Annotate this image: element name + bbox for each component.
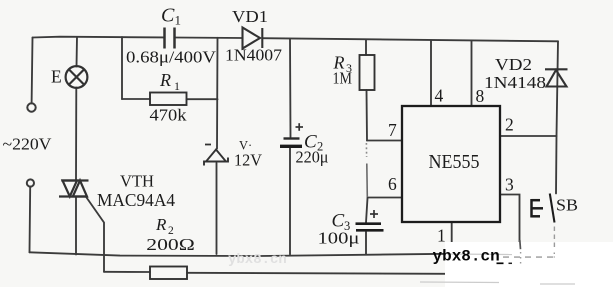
svg-text:6: 6 (388, 174, 397, 194)
svg-text:1: 1 (175, 13, 182, 28)
svg-text:E: E (51, 67, 62, 87)
svg-text:3: 3 (346, 61, 352, 75)
svg-text:NE555: NE555 (429, 152, 480, 173)
svg-text:R: R (155, 215, 167, 234)
svg-text:VTH: VTH (120, 171, 154, 190)
svg-text:1N4007: 1N4007 (225, 46, 283, 65)
svg-text:470k: 470k (150, 106, 188, 125)
svg-text:R: R (333, 53, 345, 73)
svg-text:C: C (161, 5, 175, 27)
svg-text:3: 3 (344, 219, 350, 233)
svg-text:8: 8 (476, 86, 485, 106)
svg-text:C: C (304, 132, 317, 153)
svg-text:ybx8.cn: ybx8.cn (433, 248, 500, 266)
svg-text:1N4148: 1N4148 (484, 73, 546, 92)
svg-text:VD2: VD2 (495, 55, 532, 74)
svg-text:2: 2 (168, 225, 174, 237)
svg-text:200Ω: 200Ω (146, 235, 195, 254)
svg-text:SB: SB (556, 196, 578, 215)
svg-text:3: 3 (505, 175, 514, 195)
svg-text:~220V: ~220V (3, 135, 53, 154)
svg-text:C: C (332, 211, 345, 232)
svg-text:7: 7 (388, 120, 397, 140)
svg-text:1: 1 (174, 79, 180, 93)
svg-text:VD1: VD1 (232, 7, 268, 26)
svg-text:0.68μ/400V: 0.68μ/400V (126, 48, 217, 67)
svg-text:2: 2 (317, 140, 323, 154)
svg-text:ybx8.cn: ybx8.cn (228, 252, 287, 268)
svg-text:1: 1 (437, 226, 446, 246)
svg-text:V·: V· (239, 139, 252, 153)
svg-text:MAC94A4: MAC94A4 (97, 190, 175, 210)
svg-text:4: 4 (435, 86, 444, 106)
svg-text:12V: 12V (234, 151, 262, 170)
svg-text:2: 2 (505, 115, 514, 135)
svg-text:R: R (159, 70, 171, 90)
